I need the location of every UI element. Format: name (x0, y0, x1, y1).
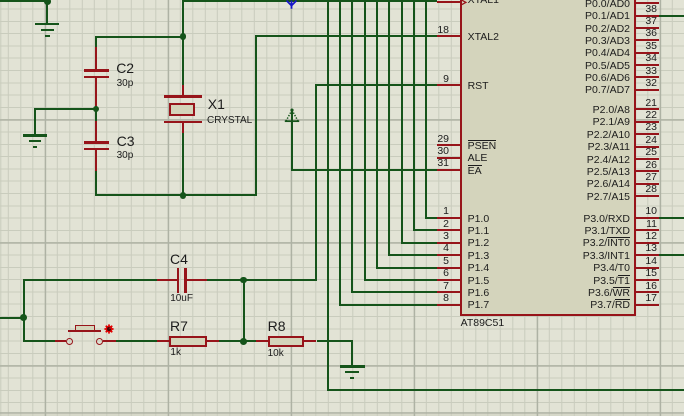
wire XTAL2 vertical (255, 35, 257, 196)
ground G1 (35, 23, 59, 25)
pin label P2.6/A14 (587, 178, 630, 191)
value C3 30p (117, 150, 134, 162)
pin EA stub (437, 169, 462, 171)
pin number 29 (419, 133, 449, 146)
resistor R7 (157, 340, 169, 342)
pin P0.3/AD3 stub (635, 39, 659, 41)
wire P1.1 route (413, 0, 415, 231)
pin label P2.3/A11 (588, 141, 630, 154)
pin label P2.4/A12 (587, 154, 630, 167)
pin label P1.1 (468, 225, 490, 238)
pin P3.4/T0 stub (635, 267, 659, 269)
pin number 7 (419, 280, 449, 293)
crystal X1 (164, 95, 202, 97)
pin label P1.6 (468, 287, 490, 300)
label C3 (117, 133, 135, 150)
wire C3 top (95, 109, 97, 121)
node crystal-C2 junction (180, 33, 187, 40)
resistor R8 (256, 340, 268, 342)
pin label P1.7 (468, 299, 490, 312)
pin number 9 (419, 73, 449, 86)
pin label P3.5/T1 (593, 275, 630, 288)
wire P3.3/INT1 to edge (659, 254, 684, 256)
wire R7 to junction (219, 340, 256, 342)
wire P1.6 route (351, 0, 353, 293)
wire junction riser R7 (243, 280, 245, 342)
value CRYSTAL (207, 115, 252, 127)
pin number 3 (419, 230, 449, 243)
pin XTAL1 clock chevron (460, 0, 470, 8)
label C2 (116, 60, 134, 77)
pin number 27 (627, 171, 657, 184)
pin label XTAL2 (468, 31, 499, 44)
pin label P1.4 (468, 262, 490, 275)
pin number 12 (627, 230, 657, 243)
pin label XTAL1 (468, 0, 499, 7)
wire C2 top horizontal (95, 36, 183, 38)
label R8 (268, 318, 286, 335)
pin P1.7 stub (437, 304, 462, 306)
wire C4 line left segment (23, 279, 157, 281)
wire P1.0 route (425, 0, 427, 219)
wire C4 line right segment (207, 279, 315, 281)
pin number 32 (627, 77, 657, 90)
wire crystal bottom (182, 133, 184, 196)
pin label RST (468, 80, 489, 93)
pin label P0.1/AD1 (585, 10, 630, 23)
pin number 13 (627, 242, 657, 255)
label C4 (170, 251, 188, 268)
pin P3.1/TXD stub (635, 229, 659, 231)
pin label P3.7/RD (590, 299, 630, 312)
capacitor C3 (95, 121, 97, 142)
value R7 1k (170, 347, 181, 359)
pin label P0.2/AD2 (585, 23, 630, 36)
wire R8 to ground (317, 340, 354, 342)
ground G3 (340, 365, 365, 367)
pin P3.6/WR stub (635, 291, 659, 293)
pin label P0.0/AD0 (585, 0, 630, 11)
label X1 (208, 96, 225, 113)
wire C2 bottom (95, 106, 97, 109)
node C4 junction (240, 277, 247, 284)
value C4 10uF (170, 293, 193, 305)
terminal triangle (282, 105, 302, 125)
wire EA terminal stem (291, 111, 293, 171)
node R7-R8 junction (240, 338, 247, 345)
wire P1.5 route (364, 0, 366, 281)
wire vertical long (327, 0, 329, 391)
wire P1.4 route (376, 0, 378, 269)
capacitor C4 (157, 279, 177, 281)
pin P1.0 stub (437, 217, 462, 219)
wire left riser (23, 279, 25, 342)
pin number 35 (627, 40, 657, 53)
wire crystal top pin (182, 85, 184, 96)
wire C3 bottom (95, 171, 97, 196)
pin number 8 (419, 292, 449, 305)
pin number 11 (627, 218, 657, 231)
pin number 38 (627, 3, 657, 16)
pin PSEN stub (437, 144, 462, 146)
pin RST stub (437, 84, 462, 86)
wire gnd stem (34, 108, 36, 135)
pin number 4 (419, 242, 449, 255)
pin label P3.3/INT1 (583, 250, 630, 263)
label AT89C51 (461, 317, 505, 330)
wire bottom horizontal to edge (327, 389, 684, 391)
pin number 30 (419, 145, 449, 158)
pin number 10 (627, 205, 657, 218)
pin number 23 (627, 121, 657, 134)
node C2-C3-gnd junction (93, 106, 100, 113)
value R8 10k (268, 348, 284, 360)
pin number 22 (627, 109, 657, 122)
chip AT89C51 body (460, 0, 635, 316)
pin number 1 (419, 205, 449, 218)
pin number 21 (627, 97, 657, 110)
pin number 24 (627, 134, 657, 147)
wire button left (23, 340, 56, 342)
pin label P0.7/AD7 (585, 84, 630, 97)
pin label PSEN (468, 140, 497, 153)
pin P2.4/A12 stub (635, 158, 659, 160)
pin label P1.2 (468, 237, 490, 250)
pin P2.6/A14 stub (635, 183, 659, 185)
ground G2 (23, 134, 47, 136)
wire button to R7 (116, 340, 157, 342)
pin label P1.3 (468, 250, 490, 263)
pin label ALE (468, 152, 488, 165)
pin P0.7/AD7 stub (635, 89, 659, 91)
pin number 6 (419, 267, 449, 280)
pin P1.2 stub (437, 242, 462, 244)
wire crystal top vertical (182, 0, 184, 85)
pin P2.1/A9 stub (635, 121, 659, 123)
wire P0.1/AD1 to edge (659, 15, 684, 17)
wire left edge horizontal (0, 317, 25, 319)
pin label P0.6/AD6 (585, 72, 630, 85)
pin P3.7/RD stub (635, 304, 659, 306)
pin label P0.3/AD3 (585, 35, 630, 48)
pin number 2 (419, 218, 449, 231)
pin label P1.5 (468, 275, 490, 288)
pin number 36 (627, 27, 657, 40)
pin number 17 (627, 292, 657, 305)
wire P1.2 route (401, 0, 403, 244)
pin number 16 (627, 280, 657, 293)
value C2 30p (117, 78, 134, 90)
pin P1.5 stub (437, 279, 462, 281)
pin number 34 (627, 52, 657, 65)
pin P3.0/RXD stub (635, 217, 659, 219)
wire C2 top drop (95, 36, 97, 47)
pin P2.5/A13 stub (635, 170, 659, 172)
pin P0.5/AD5 stub (635, 64, 659, 66)
pin P2.2/A10 stub (635, 133, 659, 135)
pin number 28 (627, 183, 657, 196)
node left junction (20, 314, 27, 321)
pin P2.3/A11 stub (635, 146, 659, 148)
pin label P2.1/A9 (593, 116, 630, 129)
pin label P2.7/A15 (587, 191, 630, 204)
pin number 33 (627, 65, 657, 78)
pin P1.3 stub (437, 254, 462, 256)
pin P0.0/AD0 stub (635, 2, 659, 4)
pin label P3.4/T0 (593, 262, 630, 275)
wire P1.3 route (388, 0, 390, 256)
wire ground stem top-left (46, 1, 48, 24)
wire XTAL2 horizontal (255, 35, 437, 37)
pin P3.3/INT1 stub (635, 254, 659, 256)
pin P0.2/AD2 stub (635, 27, 659, 29)
power terminal VCC (283, 0, 301, 12)
pin P2.7/A15 stub (635, 195, 659, 197)
node top-left junction (44, 0, 51, 5)
pin label P3.6/WR (588, 287, 630, 300)
pin number 5 (419, 255, 449, 268)
wire RST vertical riser (315, 84, 317, 280)
pin label P0.5/AD5 (585, 60, 630, 73)
pin label P2.2/A10 (587, 129, 630, 142)
pin P1.6 stub (437, 291, 462, 293)
capacitor C2 (95, 47, 97, 69)
wire P1.7 route (339, 0, 341, 306)
node crystal-bottom junction (180, 192, 187, 199)
pin number 15 (627, 267, 657, 280)
pin label EA (468, 165, 482, 178)
button switch (55, 340, 65, 342)
pin number 37 (627, 15, 657, 28)
pin number 18 (419, 24, 449, 37)
wire gnd link horizontal (34, 108, 96, 110)
wire P3.0/RXD to edge (659, 217, 684, 219)
pin label P3.1/TXD (584, 225, 630, 238)
pin P3.5/T1 stub (635, 279, 659, 281)
pin label P2.5/A13 (587, 166, 630, 179)
pin label P2.0/A8 (593, 104, 630, 117)
pin XTAL2 stub (437, 35, 462, 37)
wire XTAL1 horizontal (182, 0, 437, 2)
pin number 14 (627, 255, 657, 268)
pin label P3.0/RXD (583, 213, 630, 226)
pin P0.1/AD1 stub (635, 15, 659, 17)
wire top-left rail (0, 0, 48, 2)
pin label P0.4/AD4 (585, 47, 630, 60)
pin P1.1 stub (437, 229, 462, 231)
pin P2.0/A8 stub (635, 108, 659, 110)
pin P1.4 stub (437, 267, 462, 269)
pin label P3.2/INT0 (583, 237, 630, 250)
wire RST horizontal (315, 84, 437, 86)
pin number 26 (627, 159, 657, 172)
label R7 (170, 318, 188, 335)
pin number 25 (627, 146, 657, 159)
pin number 31 (419, 157, 449, 170)
button pressed indicator (103, 323, 115, 335)
pin label P1.0 (468, 213, 490, 226)
pin XTAL1 stub (437, 1, 462, 3)
pin ALE stub (437, 157, 462, 159)
pin P3.2/INT0 stub (635, 242, 659, 244)
wire EA horizontal (291, 169, 437, 171)
pin P0.4/AD4 stub (635, 52, 659, 54)
pin P0.6/AD6 stub (635, 76, 659, 78)
